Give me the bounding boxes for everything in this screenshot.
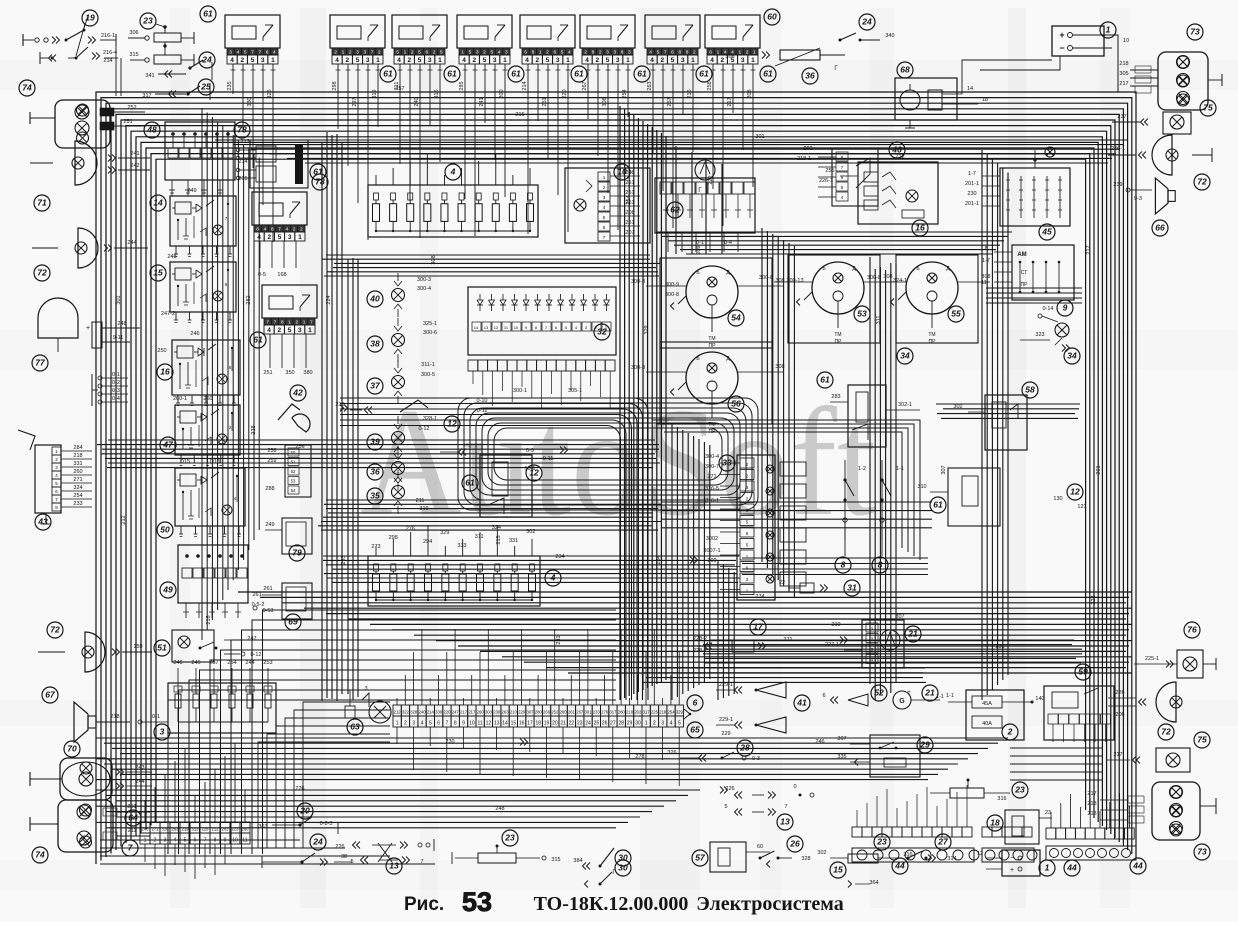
svg-text:53: 53 [462,887,492,917]
svg-text:Электросистема: Электросистема [696,893,844,915]
svg-text:ТО-18К.12.00.000: ТО-18К.12.00.000 [534,893,689,915]
svg-text:Рис.: Рис. [404,894,444,915]
